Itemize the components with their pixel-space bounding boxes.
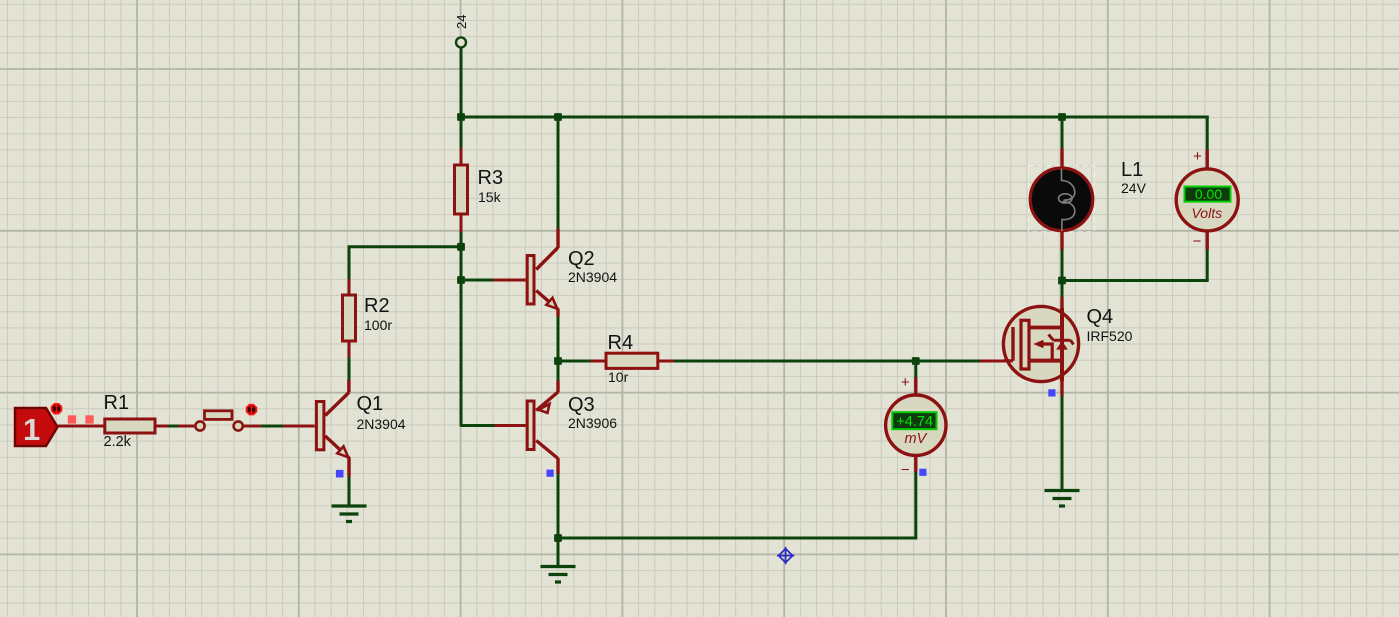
voltmeter - pin [1205,231,1208,250]
R4 pin right [658,360,674,363]
logic state marker (switch) [247,405,257,415]
svg-text:15k: 15k [478,189,502,205]
svg-text:IRF520: IRF520 [1087,328,1133,344]
junction node: rail / R3 [457,113,465,121]
svg-text:+4.74: +4.74 [896,414,933,430]
svg-text:Q1: Q1 [357,393,384,415]
svg-text:2N3904: 2N3904 [357,416,406,432]
R2 pin bottom [348,341,351,358]
ground (Q4 source) [1045,491,1080,507]
wire: R3 bottom to node [460,232,463,248]
voltmeter + pin [1205,150,1208,169]
wire: mV meter - to bottom rail [558,472,916,538]
wire: lamp bottom to node [1061,249,1064,297]
svg-text:R1: R1 [104,392,130,414]
junction node: bottom rail / ground [554,534,562,542]
lamp L1 top pin [1060,149,1063,168]
junction node: lamp / voltmeter return [1058,277,1066,285]
svg-text:R2: R2 [364,295,390,317]
R2 pin top [348,279,351,295]
wire: R4 to Q4 gate [674,360,980,363]
transistor Q1 (2N3904 NPN) [316,380,349,477]
svg-text:R3: R3 [478,167,504,189]
lamp L1 selection box [1029,166,1095,232]
wire: corner to Q3 base [461,424,495,427]
svg-text:24: 24 [454,15,469,29]
svg-text:Q2: Q2 [568,248,595,270]
wire: rail to Q2 collector [557,117,560,229]
wire/pin: terminal to R1 [57,425,105,428]
resistor R1 [105,419,155,433]
svg-text:−: − [901,462,910,479]
R3 pin top [460,148,463,165]
voltmeter VM2 (mV) body [886,395,946,455]
wire: node to R4 [558,360,591,363]
switch pin left [179,425,195,428]
svg-text:100r: 100r [364,317,392,333]
svg-text:−: − [1193,233,1202,250]
wire: R2 bottom to Q1 collector [348,358,351,381]
wire: rail to voltmeter + [1206,116,1209,150]
junction node: Q2 base tap [457,276,465,284]
wire: node to Q2 base [461,279,494,282]
ground (Q1 emitter) [332,506,367,522]
svg-text:2N3904: 2N3904 [568,269,617,285]
lamp L1 filament [1062,169,1075,232]
selection marker mV meter [919,469,926,476]
switch contact left [195,421,204,430]
voltmeter VM1 body [1176,169,1238,231]
junction node: gate line / mV meter [912,357,920,365]
wire: Q1 emitter to ground [348,476,351,506]
mosfet Q4 (IRF520) [1003,306,1078,395]
switch contact right [234,421,243,430]
input terminal 1 [15,408,58,447]
svg-text:0.00: 0.00 [1195,186,1222,202]
Q1 base pin [283,425,315,428]
mV meter display [892,412,936,429]
junction node: rail / lamp [1058,113,1066,121]
wire: bottom rail to ground [557,537,560,567]
Q4 gate pin [980,360,1005,363]
svg-text:mV: mV [905,431,928,447]
junction node: R3 / R2 [457,243,465,251]
selection marker Q1 [336,470,344,478]
logic state marker (terminal 1) [52,404,62,414]
switch actuator bar [205,411,233,420]
svg-text:L1: L1 [1121,159,1143,181]
wire: R1 to switch [169,425,179,428]
wire: terminal 24 to top rail [460,48,463,119]
svg-text:24V: 24V [1121,180,1147,196]
selection marker Q3 [547,470,554,477]
R3 pin bottom [460,214,463,232]
resistor R4 [606,353,658,368]
resistor R2 [343,295,356,341]
Q3 base pin [495,424,526,427]
wire: node down to Q3 base corner [460,247,463,427]
Q4 drain pin [1060,297,1063,308]
power terminal 24 [454,15,469,48]
lamp L1 bottom pin [1060,232,1063,250]
svg-text:2N3906: 2N3906 [568,415,617,431]
wire: Q3 collector to bottom rail [557,473,560,538]
svg-text:+: + [901,374,910,391]
resistor R3 [455,165,468,214]
voltmeter display [1185,187,1231,202]
wire: node to R2 top [349,247,460,279]
R1 pin right [155,425,169,428]
wire: R3 top [460,117,463,148]
mV meter - pin [914,456,917,473]
mV meter + pin [914,378,917,395]
wire: switch to Q1 base [261,425,283,428]
transistor Q2 (2N3904 NPN) [527,229,558,317]
switch pin right [244,425,261,428]
lamp L1 body [1030,168,1093,231]
Q2 base pin [494,279,526,282]
logic tape dash 2 [85,415,93,423]
svg-text:+: + [1193,148,1202,165]
wire: rail to lamp top [1061,117,1064,149]
sheet origin marker [777,547,794,564]
R4 pin left [591,360,607,363]
svg-text:R4: R4 [608,332,634,354]
transistor Q3 (2N3906 PNP) [527,381,558,474]
svg-text:1: 1 [23,412,40,447]
svg-text:Volts: Volts [1191,205,1222,221]
svg-text:10r: 10r [608,369,629,385]
junction node: Q2 emitter / Q3 emitter / R4 [554,357,562,365]
svg-text:Q3: Q3 [568,394,595,416]
wire: voltmeter - to lamp bottom node [1061,249,1208,281]
selection marker Q4 [1048,389,1055,396]
wire: node to mV meter + [914,361,917,378]
wire: Q4 source to ground [1061,395,1064,491]
ground (bottom rail) [541,567,576,583]
logic tape dash 1 [68,415,76,423]
wire: Q2 emitter to node [557,316,560,381]
svg-text:Q4: Q4 [1087,306,1114,328]
wire: top power rail [461,116,1209,119]
junction node: rail / Q2 collector [554,113,562,121]
svg-text:2.2k: 2.2k [104,434,132,450]
